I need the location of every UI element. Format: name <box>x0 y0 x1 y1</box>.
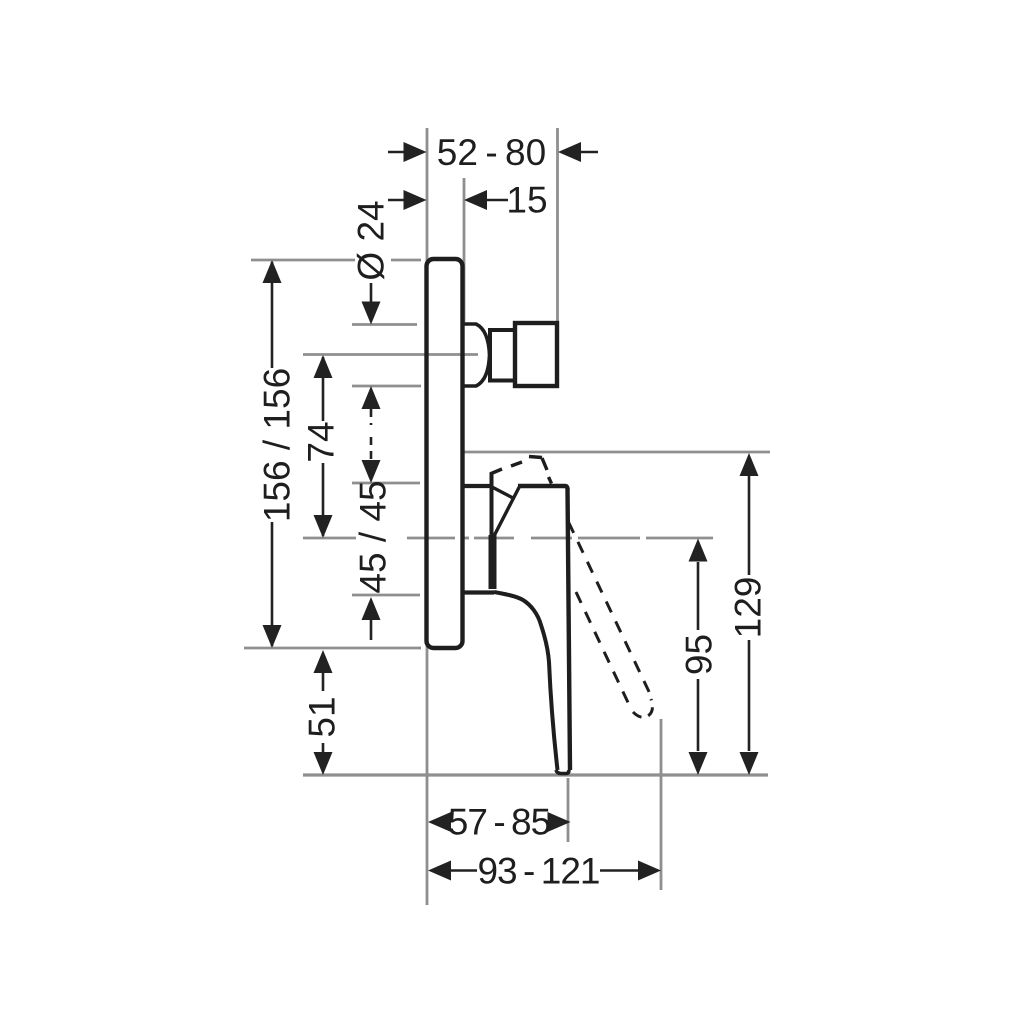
extension line x=464 (plate front +15) <box>463 178 466 322</box>
svg-text:95: 95 <box>679 634 720 675</box>
dim 93-121 right arrow <box>638 861 661 881</box>
escutcheon plate fill <box>427 259 463 648</box>
dim 45 lower arrow <box>362 597 381 620</box>
dim 57-85 left arrow <box>428 812 451 832</box>
dashed open-lever left line <box>576 592 632 711</box>
cartridge sleeve bottom edge <box>462 590 494 594</box>
dim 156/156 line <box>271 262 274 368</box>
handle blade front curve <box>494 592 558 770</box>
baseline y=775 <box>303 773 768 776</box>
fixture body (black) <box>427 259 653 774</box>
svg-text:57 - 85: 57 - 85 <box>448 802 551 843</box>
dashed raised-handle outline <box>490 457 552 484</box>
dim 52-80 left arrow <box>388 151 405 154</box>
svg-text:51: 51 <box>302 696 343 737</box>
handle neck front bar <box>489 535 497 589</box>
dim 74 line <box>322 357 325 421</box>
svg-text:15: 15 <box>506 180 547 221</box>
extension line x=558 (52-80 right) <box>556 128 559 322</box>
handle tip cap <box>556 770 569 774</box>
handle neck back edge <box>490 473 494 537</box>
dim 45 upper arrow <box>370 437 373 459</box>
tick line y=260 (plate top) <box>251 259 355 262</box>
svg-text:93 - 121: 93 - 121 <box>477 851 599 892</box>
dimension labels <box>257 132 769 892</box>
dimension arrows + shafts (black) <box>263 142 759 881</box>
svg-text:Ø 24: Ø 24 <box>351 200 392 280</box>
escutcheon plate <box>427 259 463 648</box>
tick line y=324.5 (spigot top) <box>352 323 417 326</box>
svg-text:52 - 80: 52 - 80 <box>437 132 546 173</box>
handle back edge <box>568 488 571 770</box>
tick line y=648 (plate bottom) <box>244 647 421 650</box>
cartridge sleeve top edge <box>462 484 490 488</box>
spout connector block <box>515 323 557 386</box>
dim Ø24 lower arrow <box>362 386 381 409</box>
dim 52-80 right arrow <box>581 151 598 154</box>
dashed open-lever right line <box>569 522 653 698</box>
dim 15 arrow <box>487 199 508 202</box>
pivot centerline y=538 <box>303 537 356 540</box>
dim 95 line <box>697 562 700 630</box>
svg-text:156 / 156: 156 / 156 <box>257 368 298 522</box>
svg-text:74: 74 <box>301 421 342 462</box>
dashed open-lever end cap <box>633 699 652 717</box>
handle top edge <box>518 486 568 489</box>
centerline y=354.5 (spigot axis) <box>303 353 478 356</box>
handle neck diagonal 1 <box>492 487 514 499</box>
dim 129 line <box>748 476 751 575</box>
dim 93-121 left arrow <box>428 861 451 881</box>
handle neck diagonal 2 <box>494 486 520 537</box>
extension line x=427 (wall face) <box>426 128 429 905</box>
dim 15 outside arrow <box>388 199 405 202</box>
svg-text:129: 129 <box>728 577 769 639</box>
spout connector ring <box>490 330 515 381</box>
tick line y=483 <box>352 482 420 485</box>
extension lines (gray) <box>244 128 770 905</box>
tick line y=595 <box>352 594 420 597</box>
spout connector dome <box>463 324 490 386</box>
extension line x=568 (lever tip) <box>567 778 570 842</box>
tick line y=452 (dashed handle top / 129) <box>463 451 770 454</box>
tick line y=386 (spigot bottom) <box>352 385 421 388</box>
dim 57-85 right arrow <box>548 812 571 832</box>
dim Ø24 arrow <box>370 283 373 303</box>
dim 51 line <box>322 673 325 691</box>
extension line x=661 (dashed lever tip) <box>660 719 663 890</box>
svg-text:45 / 45: 45 / 45 <box>353 480 394 593</box>
